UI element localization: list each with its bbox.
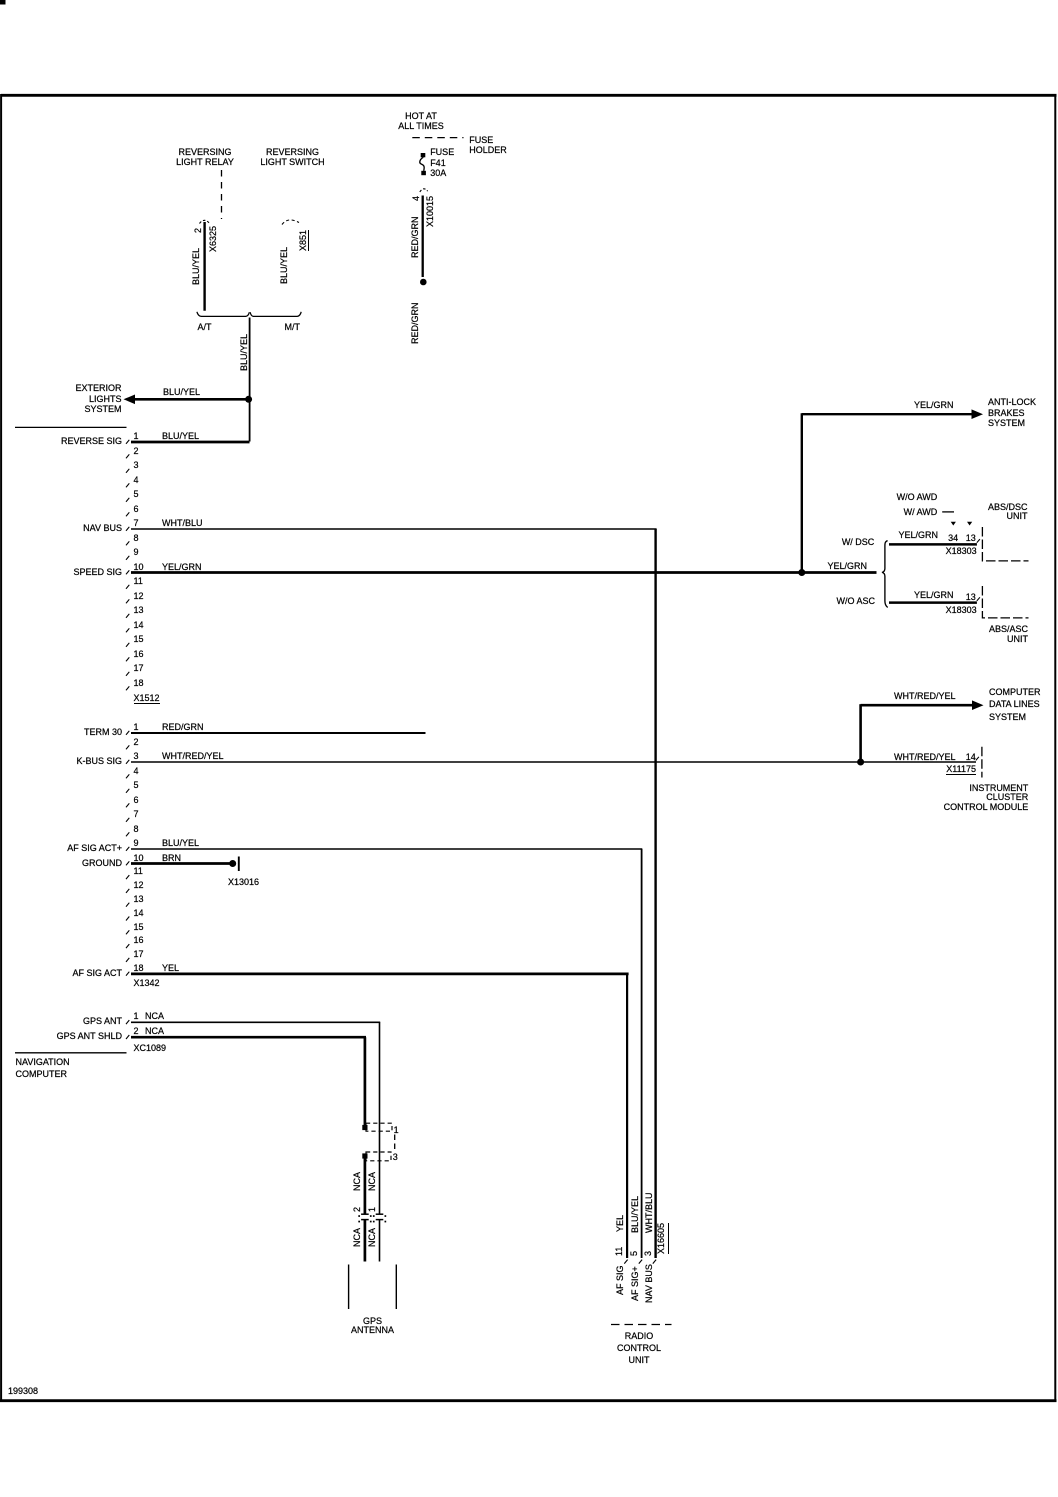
wire YEL vertical to radio pin 11 — [626, 974, 628, 1258]
pin 5 tick — [126, 498, 129, 502]
inline connector dashed box pin 3 — [366, 1152, 391, 1161]
pin 11 number — [134, 866, 143, 876]
wire YEL/GRN vertical to anti-lock brakes — [801, 413, 803, 572]
wire label NCA gps ant shld — [145, 1026, 164, 1036]
connector X6325 — [208, 225, 218, 251]
wire label BLU/YEL (exterior lights) — [163, 387, 200, 397]
wire WHT/RED/YEL k-bus signal — [131, 761, 861, 763]
wire NCA gps shield vertical middle — [364, 1156, 367, 1214]
fuse holder boundary dashed — [412, 137, 463, 139]
pin 13 number — [134, 894, 144, 904]
connector X16605 — [656, 1222, 669, 1253]
M/T option bracket — [253, 315, 298, 317]
label M/T — [285, 322, 301, 332]
arrow option pin 34 — [951, 522, 956, 526]
pin 2 inline connector 2 — [352, 1207, 362, 1212]
pin 1 label inline connector — [394, 1125, 399, 1135]
pin 17 tick — [126, 672, 129, 676]
pin 8 tick — [126, 832, 129, 836]
ground point X13016 — [229, 860, 236, 867]
wire label BLU/YEL (relay) — [191, 248, 201, 285]
option label W/O AWD — [897, 492, 938, 502]
pin 10 tick — [126, 570, 129, 574]
navigation computer top boundary — [15, 426, 127, 428]
pin 18 tick — [126, 686, 129, 690]
wire NCA gps antenna signal vertical — [379, 1022, 381, 1214]
pin 6 tick — [126, 803, 129, 807]
wire WHT/RED/YEL to instrument cluster — [861, 761, 976, 763]
A/T option bracket — [201, 315, 246, 317]
pin 1 number — [134, 722, 139, 732]
wire YEL/GRN w/ dsc branch — [889, 543, 977, 546]
ground label X13016 — [228, 877, 259, 887]
pin 9 tick — [126, 847, 129, 851]
pin 13 tick — [126, 614, 129, 618]
pin socket tick abs/asc — [977, 597, 980, 601]
pin 17 tick — [126, 958, 129, 962]
pin 9 number — [134, 838, 139, 848]
pin 16 tick — [126, 657, 129, 661]
pin 5 radio — [629, 1251, 639, 1256]
radio pin tick — [653, 1260, 656, 1264]
pin 2 number — [134, 737, 139, 747]
wire WHT/BLU vertical to radio pin 3 — [654, 529, 656, 1258]
signal label SPEED SIG — [73, 567, 122, 577]
pin 8 tick — [126, 541, 129, 545]
component abs/asc unit label — [989, 625, 1028, 644]
pin 3 number — [134, 751, 139, 761]
pin 4 tick — [126, 774, 129, 778]
pin 11 radio — [614, 1246, 624, 1255]
pin 1 number XC1089 — [134, 1011, 139, 1021]
wire YEL/GRN speed signal — [131, 571, 803, 574]
connector X6325 pin 2 socket arc — [200, 220, 210, 223]
pin 5 tick — [126, 789, 129, 793]
system label computer data lines system — [989, 686, 1041, 723]
pin 18 number — [134, 963, 144, 973]
pin 1 inline connector 2 — [367, 1207, 377, 1212]
rotated signal label AF SIG — [615, 1265, 625, 1295]
wire YEL/GRN w/o asc branch — [889, 601, 977, 604]
wire dashed from reversing light relay — [221, 170, 223, 219]
wire BRN ground — [131, 862, 230, 865]
pin 4 of X10015 — [411, 196, 421, 201]
inline connector dashed box pin 1 — [366, 1123, 392, 1131]
wire label RED/GRN (fuse) — [410, 216, 420, 258]
pin 1 tick — [126, 440, 129, 444]
wire BLU/YEL reverse signal — [131, 441, 250, 444]
pin 3 tick — [126, 469, 129, 473]
connector X18303 (abs/dsc) — [946, 546, 977, 556]
wire label NCA left above connector — [352, 1172, 362, 1191]
pin 2 number XC1089 — [134, 1026, 139, 1036]
component gps antenna box — [348, 1265, 350, 1310]
component navigation computer — [16, 1056, 70, 1081]
pin 3 radio — [643, 1251, 653, 1256]
pin 15 tick — [126, 930, 129, 934]
connector X10015 — [425, 195, 435, 226]
pin 3 number — [134, 460, 139, 470]
pin 3 tick — [126, 760, 129, 764]
component gps antenna label — [303, 1317, 443, 1337]
component fuse holder label — [469, 135, 507, 155]
pin 1 number — [134, 431, 139, 441]
option fork bracket — [882, 541, 888, 608]
pin 17 number — [134, 949, 144, 959]
wire YEL/GRN to anti-lock brakes system — [802, 413, 975, 415]
ground bar — [238, 857, 240, 872]
A/T bracket left hook — [197, 312, 201, 317]
node WHT/RED/YEL k-bus junction — [857, 759, 864, 766]
wire label BLU/YEL (switch) — [279, 247, 289, 284]
pin 17 number — [134, 663, 144, 673]
wire label WHT/BLU pin7 — [162, 518, 203, 528]
wire label WHT/RED/YEL (data lines arrow) — [894, 691, 956, 701]
pin 12 tick — [126, 599, 129, 603]
wire NCA gps shield vertical lower — [364, 1220, 367, 1262]
pin 13 abs/asc — [966, 592, 976, 602]
pin 13 tick — [126, 903, 129, 907]
wire WHT/RED/YEL vertical to computer data lines — [859, 704, 862, 762]
wire label NCA right above connector — [367, 1172, 377, 1191]
pin 8 number — [134, 533, 139, 543]
inline connector link dashed — [394, 1135, 396, 1150]
signal label GPS ANT SHLD — [57, 1031, 122, 1041]
pin 15 number — [134, 922, 144, 932]
wire label WHT/RED/YEL (to cluster) — [894, 752, 956, 762]
component reversing light switch label — [223, 147, 363, 168]
wire label YEL/GRN (asc branch) — [914, 590, 954, 600]
pin socket tick abs/dsc — [977, 539, 980, 543]
diagram number 199308 — [8, 1386, 38, 1396]
pin 2 number — [134, 446, 139, 456]
pin 11 tick — [126, 585, 129, 589]
pin 1 tick — [126, 731, 129, 735]
wire NCA gps signal vertical lower — [379, 1220, 381, 1262]
node RED/GRN splice — [420, 279, 427, 286]
signal label GROUND — [82, 858, 122, 868]
connector X10015 pin 4 socket arc — [420, 189, 428, 192]
connector X11175 — [946, 764, 976, 775]
wire label RED/GRN term30 — [162, 722, 204, 732]
rotated signal label NAV BUS — [644, 1264, 654, 1303]
pin 16 number — [134, 935, 144, 945]
wire NCA gps antenna shield — [131, 1036, 366, 1039]
fuse value label FUSE F41 30A — [430, 147, 454, 178]
node gps shield at inline connector — [362, 1125, 367, 1130]
signal label NAV BUS — [83, 523, 122, 533]
signal label TERM 30 — [84, 727, 122, 737]
pin 34 abs/dsc — [948, 533, 958, 543]
abs/dsc unit boundary dashed — [982, 527, 1028, 561]
wire BLU/YEL vertical to radio pin 5 — [641, 849, 643, 1258]
pin 14 tick — [126, 628, 129, 632]
wire NCA gps shield vertical upper — [364, 1037, 367, 1127]
label A/T — [198, 322, 212, 332]
instrument cluster boundary dashed — [981, 747, 983, 778]
node BLU/YEL junction — [245, 396, 252, 403]
connector X18303 (abs/asc) — [946, 605, 977, 615]
pin 12 tick — [126, 889, 129, 893]
pin 10 number — [134, 853, 144, 863]
pin 4 tick — [126, 483, 129, 487]
pin 2 of X6325 — [193, 228, 203, 233]
signal label GPS ANT — [83, 1016, 122, 1026]
pin 15 number — [134, 634, 144, 644]
pin socket tick instrument cluster — [976, 757, 979, 761]
inline connector 2 terminals — [361, 1213, 369, 1215]
pin 2 tick — [126, 745, 129, 749]
pin 11 number — [134, 576, 143, 586]
wire label BLU/YEL pin9 — [162, 838, 199, 848]
border frame — [1, 94, 1057, 97]
wire label YEL/GRN (before fork) — [828, 561, 868, 571]
fuse F41 symbol — [421, 153, 426, 157]
A/T bracket right hook — [246, 312, 249, 316]
pin 16 number — [134, 649, 144, 659]
wire label BLU/YEL (center) — [239, 334, 249, 371]
pin 7 number — [134, 518, 139, 528]
pin 18 tick — [126, 972, 129, 976]
pin 5 number — [134, 489, 139, 499]
radio pin tick — [624, 1260, 627, 1264]
component instrument cluster control module label — [944, 784, 1029, 813]
pin 3 label inline connector — [393, 1152, 398, 1162]
connector X1512 — [134, 693, 160, 704]
pin 1 tick XC1089 — [126, 1020, 129, 1024]
arrow to exterior lights system — [124, 395, 136, 405]
pin 8 number — [134, 824, 139, 834]
pin 4 number — [134, 475, 139, 485]
signal label AF SIG ACT — [72, 968, 122, 978]
pin 16 tick — [126, 944, 129, 948]
navigation computer bottom boundary — [15, 1052, 127, 1054]
wire label YEL pin18 — [162, 963, 179, 973]
pin 15 tick — [126, 643, 129, 647]
pin 7 tick — [126, 818, 129, 822]
rotated signal label AF SIG+ — [630, 1266, 640, 1301]
option label W/O ASC — [836, 596, 875, 606]
arrow to anti-lock brakes system — [972, 409, 984, 419]
pin 7 number — [134, 809, 139, 819]
wire BLU/YEL to exterior lights system — [133, 398, 249, 401]
pin 6 number — [134, 504, 139, 514]
radio control unit boundary dashed — [611, 1324, 672, 1326]
arrow to computer data lines system — [972, 700, 984, 710]
pin 7 tick — [126, 527, 129, 531]
wire label WHT/BLU radio — [644, 1193, 654, 1234]
wire label YEL/GRN (dsc branch) — [899, 530, 939, 540]
node YEL/GRN speed signal junction — [798, 569, 805, 576]
connector XC1089 — [134, 1043, 167, 1053]
option label W/ AWD — [904, 507, 938, 517]
node gps shield below inline connector — [362, 1153, 367, 1158]
wire label BRN ground — [162, 853, 181, 863]
option label W/ DSC — [842, 537, 875, 547]
wire label WHT/RED/YEL k-bus — [162, 751, 224, 761]
system label anti-lock brakes system — [988, 397, 1036, 428]
pin 9 tick — [126, 556, 129, 560]
pin 14 number — [134, 620, 144, 630]
pin 9 number — [134, 547, 139, 557]
pin 14 tick — [126, 917, 129, 921]
pin 4 number — [134, 766, 139, 776]
pin 6 number — [134, 795, 139, 805]
pin 6 tick — [126, 512, 129, 516]
component reversing light relay label — [135, 147, 275, 168]
pin 12 number — [134, 591, 144, 601]
component abs/dsc unit label — [988, 503, 1028, 522]
wire NCA gps antenna signal — [131, 1021, 380, 1023]
pin 10 tick — [126, 861, 129, 865]
wire label BLU/YEL radio — [630, 1196, 640, 1233]
pin 5 number — [134, 780, 139, 790]
pin 14 number — [134, 908, 144, 918]
connector X851 pin socket arc (dashed) — [282, 220, 299, 225]
wire label YEL/GRN pin10 — [162, 562, 202, 572]
wire label NCA right below connector — [367, 1228, 377, 1247]
pin 2 tick — [126, 454, 129, 458]
radio pin tick — [639, 1260, 642, 1264]
wire label YEL radio — [615, 1214, 625, 1231]
pin 13 abs/dsc — [966, 533, 976, 543]
wire WHT/BLU nav bus — [131, 528, 657, 530]
wire label NCA gps ant — [145, 1011, 164, 1021]
power label hot at all times — [351, 111, 491, 132]
wire BLU/YEL junction to reverse signal — [249, 318, 251, 442]
wire label RED/GRN (below splice) — [410, 302, 420, 344]
W/ AWD pointer line — [942, 511, 954, 513]
pin 14 instrument cluster — [966, 752, 976, 762]
wire BLU/YEL from reversing light relay — [203, 222, 205, 311]
wire RED/GRN from fuse F41 — [422, 196, 424, 278]
pin 10 number — [134, 562, 144, 572]
signal label REVERSE SIG — [61, 436, 122, 446]
pin 11 tick — [126, 875, 129, 879]
system label exterior lights system — [75, 383, 121, 414]
signal label AF SIG ACT+ — [67, 843, 122, 853]
pin 2 tick XC1089 — [126, 1035, 129, 1039]
pin 13 number — [134, 605, 144, 615]
pin 18 number — [134, 678, 144, 688]
connector X851 — [298, 229, 309, 250]
abs/asc unit boundary dashed — [982, 586, 1028, 618]
signal label K-BUS SIG — [76, 756, 122, 766]
connector X1342 — [134, 978, 160, 988]
wire YEL/GRN to option fork — [803, 571, 877, 574]
wire RED/GRN terminal 30 — [131, 732, 426, 734]
arrow option pin 13 — [967, 522, 972, 526]
pin 12 number — [134, 880, 144, 890]
component radio control unit label — [569, 1330, 709, 1367]
wire YEL af sig act — [131, 973, 629, 976]
wire label BLU/YEL pin1 — [162, 431, 199, 441]
M/T bracket right hook — [298, 312, 302, 317]
wire label NCA left below connector — [352, 1228, 362, 1247]
wire BLU/YEL af sig act+ — [131, 848, 642, 850]
wire WHT/RED/YEL to computer data lines system — [861, 704, 975, 707]
wire label YEL/GRN (abs arrow) — [914, 400, 954, 410]
M/T bracket left hook — [250, 312, 253, 316]
